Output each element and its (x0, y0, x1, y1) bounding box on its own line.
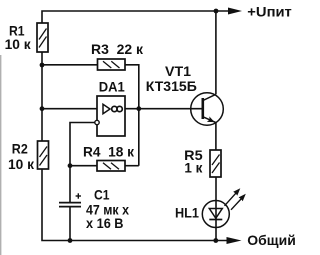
scan artifact left edge (0, 55, 1, 255)
resistor R1 (37, 23, 48, 52)
transistor VT1 (191, 93, 224, 126)
node E junction (C1 ground) (68, 238, 73, 243)
resistor R5 (210, 150, 221, 177)
svg-text:КТ315Б: КТ315Б (146, 78, 197, 94)
wire R2 bottom to ground rail (42, 169, 227, 241)
node A junction (40, 63, 45, 68)
wire C1 bottom to ground rail (69, 207, 71, 241)
node G junction (HL1 ground) (213, 238, 218, 243)
capacitor C1 (59, 193, 81, 206)
Общий terminal arrow (227, 237, 242, 244)
svg-text:VT1: VT1 (165, 63, 191, 79)
wire VT1 emitter to R5 (215, 123, 217, 150)
wire R4 right (125, 165, 139, 167)
LED HL1 (202, 188, 246, 227)
svg-text:C1: C1 (94, 186, 110, 202)
svg-text:10 к: 10 к (8, 156, 35, 172)
svg-text:Общий: Общий (247, 232, 295, 248)
op-amp DA1 (95, 96, 125, 136)
svg-text:10 к: 10 к (5, 36, 32, 52)
node C junction (DA1 output) (136, 106, 141, 111)
wire R4 left (70, 165, 97, 167)
svg-text:HL1: HL1 (175, 205, 199, 221)
wire node A to R3 left (42, 64, 98, 66)
wire DA1 inverting input down to C1 (70, 123, 95, 203)
svg-text:х 16 В: х 16 В (86, 215, 124, 231)
svg-text:R3 22 к: R3 22 к (91, 41, 144, 57)
svg-text:DA1: DA1 (99, 78, 125, 94)
wire R5 to HL1 and ground rail (215, 177, 217, 241)
node F junction (+Uпит column) (214, 9, 219, 14)
svg-text:R4 18 к: R4 18 к (83, 143, 135, 159)
resistor R4 (97, 161, 125, 172)
node B junction (40, 106, 45, 111)
node D junction (inverting/R4/C1) (68, 163, 73, 168)
wire DA1 output to VT1 base (125, 108, 202, 110)
+Uпит terminal arrow (228, 8, 242, 15)
wire left column R1-R2 (41, 52, 43, 141)
wire R3 right to node C column (125, 65, 139, 166)
svg-text:R2: R2 (12, 141, 28, 157)
svg-text:1 к: 1 к (184, 160, 203, 176)
wire top rail +Uпит (42, 11, 228, 23)
wire node B to DA1 noninverting input (42, 108, 97, 110)
wire VT1 collector to top rail (215, 11, 217, 94)
resistor R2 (38, 141, 49, 169)
svg-text:+Uпит: +Uпит (247, 4, 292, 20)
resistor R3 (98, 59, 126, 70)
